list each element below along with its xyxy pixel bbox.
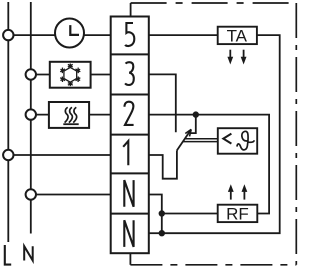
- wire terminal 1 to switch blade pivot: [149, 150, 177, 178]
- enclosure dash-dot border top: [131, 2, 297, 4]
- switch blade: [177, 129, 191, 150]
- svg-text:RF: RF: [226, 204, 249, 223]
- RF arrows up: [228, 184, 247, 199]
- wire TA output down right side to node dot2: [162, 35, 280, 233]
- terminal circle on N at N1 wire: [26, 189, 36, 199]
- svg-text:TA: TA: [227, 27, 248, 46]
- wire switch contact stub from junction: [190, 115, 196, 134]
- mechanical linkage to thermostat: [183, 139, 218, 142]
- snowflake symbol: [60, 63, 80, 86]
- wire N to terminal N1: [31, 194, 111, 196]
- wire N supply line: [30, 2, 32, 234]
- thermostat box U1: [218, 128, 257, 154]
- heating symbol waves: [65, 107, 77, 122]
- clock (time switch): [55, 19, 84, 48]
- wire L to terminal 1: [8, 154, 110, 156]
- terminal label 2: [125, 102, 134, 125]
- wire terminal N2 to enclosure border: [129, 253, 131, 265]
- wire terminal N1 down to node dot2: [149, 195, 162, 234]
- wire L supply line: [7, 2, 9, 242]
- cooling box: [50, 62, 91, 88]
- terminal label N2: [124, 220, 133, 247]
- wire N to heating box to terminal 2: [31, 114, 111, 116]
- wire terminal 2 right through junction down to RF right: [149, 115, 269, 214]
- terminal label N1: [124, 180, 133, 207]
- junction dot at switch stub: [193, 111, 199, 117]
- terminal circle on N at cooling wire: [26, 69, 36, 79]
- terminal label 3: [125, 62, 134, 85]
- junction dot2 at N wire: [159, 230, 165, 236]
- heating box: [49, 102, 89, 128]
- TA box: [218, 27, 257, 44]
- heating symbol underline: [63, 123, 78, 125]
- wire node dot1 to RF left: [162, 213, 218, 215]
- enclosure dash-dot border bottom: [130, 264, 296, 266]
- terminal label 1: [123, 141, 128, 165]
- junction dot1 at RF left: [159, 210, 165, 216]
- wire terminal 5 to enclosure border: [130, 3, 132, 17]
- wire terminal 5 to TA: [149, 34, 218, 36]
- wire terminal N2 to node dot2: [149, 232, 162, 234]
- wire terminal 3 to switch fixed contact: [149, 74, 176, 132]
- thermostat less-than symbol: [223, 134, 231, 144]
- terminal label 5: [125, 23, 134, 46]
- label L: [5, 245, 11, 265]
- TA arrows down: [227, 50, 246, 65]
- terminal circle on L at clock wire: [3, 30, 13, 40]
- terminal circle on L at terminal 1 wire: [3, 150, 13, 160]
- RF box: [218, 205, 258, 222]
- terminal block: [111, 17, 149, 254]
- enclosure dash-dot border right: [295, 3, 297, 265]
- terminal dividers: [111, 54, 149, 213]
- thermostat theta symbol: [237, 131, 254, 150]
- label N: [24, 246, 33, 260]
- wire L to clock to terminal 5: [8, 34, 110, 36]
- switch blade arrowhead: [185, 129, 191, 136]
- wire N to cooling box to terminal 3: [31, 74, 111, 76]
- clock hands: [70, 25, 79, 35]
- terminal circle on N at heating wire: [26, 109, 36, 119]
